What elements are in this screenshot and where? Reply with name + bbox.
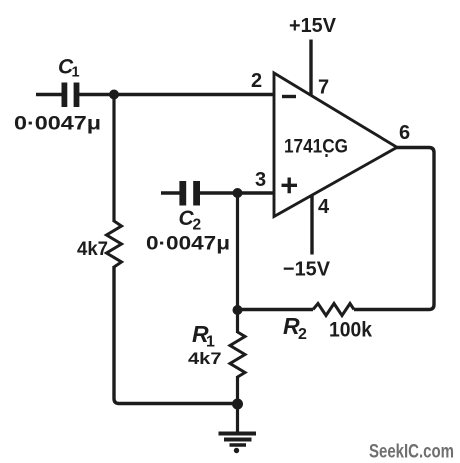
label C1 (58, 56, 80, 81)
op-amp label 1741CG (284, 137, 348, 158)
wire C2 to op-amp pin 3 (200, 191, 275, 194)
svg-text:0·0047μ: 0·0047μ (146, 234, 230, 255)
node junction at pin 3 (233, 188, 243, 198)
svg-text:4k7: 4k7 (77, 239, 108, 260)
wire input stub left of C1 (36, 93, 62, 96)
minus symbol inverting input (282, 95, 296, 98)
svg-text:1: 1 (206, 334, 215, 351)
wire stub left of C2 (161, 191, 180, 194)
label C2 (179, 207, 202, 234)
svg-text:100k: 100k (329, 319, 372, 342)
svg-text:+15V: +15V (289, 14, 336, 37)
capacitor C1 (62, 83, 80, 108)
svg-text:3: 3 (255, 169, 266, 191)
node feedback junction (233, 305, 243, 315)
wire R1 to ground (236, 376, 239, 433)
svg-text:4k7: 4k7 (188, 350, 222, 368)
svg-text:2: 2 (193, 217, 202, 234)
wire feedback node down to R1 (236, 310, 239, 333)
svg-text:4: 4 (318, 196, 330, 218)
resistor R2 (313, 304, 354, 316)
svg-text:−15V: −15V (283, 258, 330, 281)
svg-text:2: 2 (298, 326, 307, 343)
wire R2 to output pin 6 (354, 148, 434, 310)
wire pin 4 to -15V supply (310, 196, 313, 255)
svg-text:6: 6 (399, 122, 410, 144)
svg-text:SeekIC.com: SeekIC.com (369, 442, 454, 463)
label R1 (192, 321, 215, 351)
wire junction down to left 4k7 resistor (112, 95, 115, 223)
svg-text:1741CG: 1741CG (284, 137, 348, 158)
node junction at C1 output (109, 90, 119, 100)
svg-text:1: 1 (72, 65, 80, 81)
svg-text:7: 7 (318, 77, 329, 99)
resistor R1 (230, 332, 245, 377)
node ground junction (232, 399, 243, 410)
wire C1 to op-amp pin 2 (79, 93, 275, 96)
svg-text:2: 2 (251, 70, 262, 92)
resistor 4k7 left (107, 221, 122, 267)
label R2 (283, 313, 307, 343)
capacitor C2 (179, 181, 200, 206)
wire 4k7 down and along bottom to ground node (114, 266, 238, 404)
wire pin 7 to +15V supply (309, 40, 312, 97)
wire pin 3 junction down to feedback node (236, 193, 239, 310)
ground (219, 434, 257, 454)
plus symbol non-inverting input (282, 178, 298, 194)
op-amp U1 triangle (274, 73, 397, 217)
wire feedback node to R2 (238, 308, 314, 311)
svg-text:0·0047μ: 0·0047μ (14, 114, 101, 135)
